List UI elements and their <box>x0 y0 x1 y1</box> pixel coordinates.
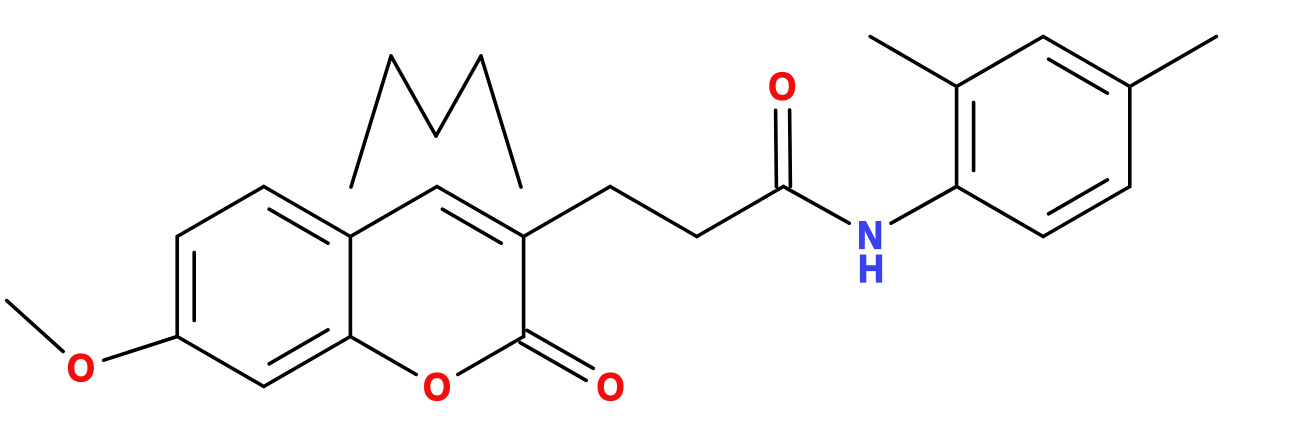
svg-text:H: H <box>858 247 884 290</box>
svg-text:O: O <box>67 346 95 389</box>
svg-text:O: O <box>768 64 796 107</box>
svg-text:O: O <box>423 365 451 408</box>
svg-text:O: O <box>597 365 625 408</box>
